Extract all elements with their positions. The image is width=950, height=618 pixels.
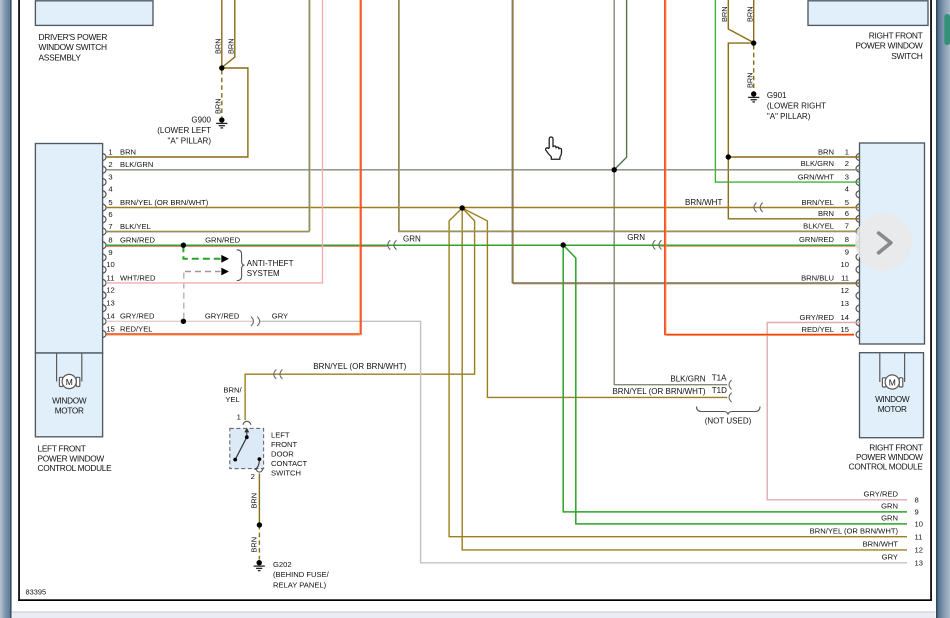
- svg-text:"A" PILLAR): "A" PILLAR): [168, 137, 212, 146]
- wire BRN to right module pin 1: [728, 156, 860, 158]
- page frame left border: [18, 0, 20, 601]
- svg-text:DRIVER'S POWER: DRIVER'S POWER: [39, 32, 108, 42]
- svg-text:4: 4: [108, 185, 112, 194]
- brace (NOT USED): [697, 407, 761, 415]
- wire dashed WHT/RED to anti-theft: [185, 271, 221, 273]
- svg-text:10: 10: [106, 260, 114, 269]
- wire BRN second vertical to G901 junction: [753, 0, 755, 43]
- left front door contact switch box: [230, 428, 264, 468]
- wire BLK/YEL right pin7 from top: [399, 0, 860, 232]
- svg-text:6: 6: [845, 209, 849, 218]
- svg-text:14: 14: [106, 312, 114, 321]
- svg-text:MOTOR: MOTOR: [878, 405, 907, 414]
- arrowhead anti-theft 1: [221, 255, 229, 263]
- wire dashed GRY to pin14 junction: [183, 273, 185, 322]
- svg-text:15: 15: [841, 325, 849, 334]
- wire WHT/RED left pin11 up: [106, 0, 322, 283]
- svg-text:WHT/RED: WHT/RED: [120, 273, 156, 282]
- svg-text:RIGHT FRONT: RIGHT FRONT: [869, 443, 922, 453]
- svg-text:BRN: BRN: [213, 98, 222, 114]
- svg-text:CONTROL MODULE: CONTROL MODULE: [38, 463, 113, 473]
- svg-text:13: 13: [106, 299, 114, 308]
- svg-text:(LOWER RIGHT: (LOWER RIGHT: [767, 102, 826, 111]
- wire BLK/GRN branch up: [613, 0, 615, 170]
- svg-text:1: 1: [845, 147, 849, 156]
- left motor symbol M: [57, 354, 82, 389]
- svg-text:MOTOR: MOTOR: [55, 406, 84, 415]
- scrollbar thumb (teal): [944, 14, 950, 45]
- wire BRN/YEL branch to door contact switch: [245, 208, 475, 420]
- page frame bottom border: [18, 599, 932, 601]
- svg-text:GRN: GRN: [627, 233, 645, 242]
- wire GRN branch to exit 10: [563, 245, 907, 524]
- svg-text:12: 12: [106, 286, 114, 295]
- right connector pins 1-15: [856, 153, 859, 160]
- svg-text:14: 14: [841, 313, 849, 322]
- junction BRN right: [751, 40, 756, 45]
- wire BRN/WHT branch to exit 12: [462, 208, 907, 550]
- wire BLK/GRN pin2 across: [106, 169, 860, 171]
- wire RED/YEL left pin15 up: [106, 0, 361, 334]
- svg-text:9: 9: [108, 248, 112, 257]
- svg-text:BLK/YEL: BLK/YEL: [120, 222, 151, 231]
- switch plunger arrow: [246, 431, 248, 438]
- right front power window switch box: [808, 1, 928, 26]
- ground G202: [254, 560, 265, 571]
- svg-text:POWER WINDOW: POWER WINDOW: [856, 452, 923, 462]
- svg-text:RIGHT FRONT: RIGHT FRONT: [869, 31, 923, 41]
- wire BRN branch down to right pin 6: [728, 43, 860, 219]
- svg-text:GRN/RED: GRN/RED: [205, 236, 241, 245]
- svg-text:BRN/WHT: BRN/WHT: [863, 540, 899, 549]
- ground G900: [216, 117, 227, 128]
- right window motor box: [860, 353, 924, 438]
- svg-text:83395: 83395: [26, 587, 47, 596]
- junction BRN left: [219, 65, 224, 70]
- svg-text:15: 15: [106, 324, 114, 333]
- svg-text:GRN/WHT: GRN/WHT: [798, 173, 835, 182]
- junction BRN/YEL bus fan-out: [460, 205, 465, 210]
- svg-text:GRN: GRN: [881, 502, 898, 511]
- svg-text:9: 9: [915, 508, 919, 517]
- svg-text:YEL: YEL: [225, 395, 239, 404]
- wire BRN to left module pin 1: [106, 68, 248, 157]
- wire BRN/YEL branch to exit 11: [449, 208, 907, 537]
- wire BRN dashed to ground G900: [221, 70, 223, 117]
- wire dashed GRN to anti-theft: [183, 245, 220, 259]
- next page chevron button: [855, 214, 912, 271]
- svg-text:RELAY PANEL): RELAY PANEL): [273, 581, 327, 590]
- svg-text:2: 2: [845, 159, 849, 168]
- svg-text:DOOR: DOOR: [271, 450, 294, 459]
- svg-text:13: 13: [915, 559, 923, 568]
- svg-text:SWITCH: SWITCH: [271, 468, 301, 477]
- svg-text:POWER WINDOW: POWER WINDOW: [38, 453, 105, 463]
- svg-text:GRN/RED: GRN/RED: [120, 236, 156, 245]
- switch pin2 hook: [255, 461, 260, 470]
- svg-text:1: 1: [108, 147, 112, 156]
- svg-text:GRY/RED: GRY/RED: [800, 313, 835, 322]
- svg-text:M: M: [889, 377, 896, 387]
- svg-text:RED/YEL: RED/YEL: [120, 324, 153, 333]
- svg-text:12: 12: [915, 546, 923, 555]
- junction GRN: [561, 242, 566, 247]
- svg-text:T1A: T1A: [712, 373, 727, 382]
- svg-text:BRN/YEL (OR BRN/WHT): BRN/YEL (OR BRN/WHT): [120, 198, 209, 207]
- bottom page gap: [12, 612, 936, 613]
- wire GRY to exit 13: [260, 321, 908, 563]
- wire GRY/RED right pin14 to exit 8: [767, 323, 907, 500]
- svg-text:3: 3: [108, 172, 112, 181]
- switch pin 2 bump: [256, 469, 263, 472]
- svg-text:5: 5: [108, 198, 112, 207]
- wire GRN branch to exit 9: [563, 245, 907, 512]
- junction GRN anti-theft tap: [181, 243, 186, 248]
- svg-text:4: 4: [845, 185, 849, 194]
- svg-text:GRN: GRN: [403, 235, 421, 244]
- right UI strip: [936, 0, 950, 618]
- junction GRY/RED anti-theft tap: [181, 319, 186, 324]
- svg-text:SYSTEM: SYSTEM: [247, 269, 280, 278]
- svg-text:BRN: BRN: [120, 147, 136, 156]
- wire BRN vertical with bend into G901 junction: [728, 0, 752, 42]
- svg-text:WINDOW SWITCH: WINDOW SWITCH: [39, 42, 107, 52]
- svg-text:BRN: BRN: [250, 537, 259, 553]
- svg-text:BRN/YEL (OR BRN/WHT): BRN/YEL (OR BRN/WHT): [612, 387, 705, 396]
- svg-text:BRN: BRN: [213, 38, 222, 54]
- wire BRN second vertical with bend into junction: [222, 0, 235, 68]
- wire BRN/YEL branch to T1D: [462, 208, 727, 397]
- svg-text:13: 13: [841, 299, 849, 308]
- svg-text:RED/YEL: RED/YEL: [802, 325, 835, 334]
- svg-text:(NOT USED): (NOT USED): [705, 416, 752, 425]
- svg-text:G202: G202: [273, 560, 292, 569]
- svg-text:6: 6: [108, 210, 112, 219]
- svg-text:(BEHIND FUSE/: (BEHIND FUSE/: [273, 570, 330, 579]
- svg-text:10: 10: [915, 520, 923, 529]
- svg-text:BRN/YEL: BRN/YEL: [802, 198, 835, 207]
- svg-text:ASSEMBLY: ASSEMBLY: [39, 53, 82, 63]
- junction BRN right pin1 tap: [726, 154, 731, 159]
- wire RED/YEL right pin15 from top: [665, 0, 854, 335]
- svg-text:11: 11: [107, 273, 115, 282]
- left connector pins 1-15: [103, 153, 106, 160]
- svg-text:GRY/RED: GRY/RED: [864, 489, 899, 498]
- svg-text:BRN/WHT: BRN/WHT: [685, 198, 722, 207]
- svg-text:BRN: BRN: [250, 493, 259, 509]
- svg-text:"A" PILLAR): "A" PILLAR): [767, 112, 811, 121]
- svg-text:BRN: BRN: [226, 38, 235, 54]
- svg-text:BRN: BRN: [720, 6, 729, 22]
- junction BRN G202: [257, 522, 262, 527]
- svg-text:M: M: [66, 377, 73, 387]
- svg-text:7: 7: [845, 222, 849, 231]
- svg-text:G901: G901: [767, 91, 787, 100]
- svg-text:BRN/: BRN/: [223, 385, 242, 394]
- svg-text:GRY: GRY: [272, 312, 288, 321]
- svg-text:LEFT: LEFT: [271, 431, 290, 440]
- wire BRN/BLU right pin11 from top: [512, 0, 860, 283]
- wire BLK/GRN branch down to T1A: [614, 170, 727, 385]
- svg-text:FRONT: FRONT: [271, 440, 298, 449]
- svg-text:9: 9: [845, 247, 849, 256]
- svg-text:11: 11: [841, 274, 849, 283]
- brace anti-theft system: [237, 250, 245, 281]
- wire GRN/WHT right pin3 from top: [715, 0, 859, 182]
- svg-text:ANTI-THEFT: ANTI-THEFT: [247, 259, 294, 268]
- left front power window control module connector box: [35, 144, 102, 354]
- wire BLK/GRN diagonal branch up: [614, 0, 626, 170]
- svg-text:7: 7: [108, 222, 112, 231]
- svg-text:8: 8: [915, 496, 919, 505]
- wire BRN/YEL pin5 across: [106, 207, 860, 209]
- switch pin2 contact: [258, 457, 262, 461]
- svg-text:BRN/YEL (OR BRN/WHT): BRN/YEL (OR BRN/WHT): [313, 362, 406, 371]
- wire BRN switch pin2 down: [258, 474, 260, 526]
- page frame right border: [930, 0, 932, 601]
- svg-text:GRY/RED: GRY/RED: [205, 312, 240, 321]
- wire BRN dashed to ground G901: [753, 45, 755, 92]
- driver's power window switch assembly box: [35, 1, 153, 26]
- right motor symbol M: [880, 353, 905, 389]
- svg-text:BRN/YEL (OR BRN/WHT): BRN/YEL (OR BRN/WHT): [810, 526, 899, 535]
- svg-text:12: 12: [841, 286, 849, 295]
- switch pin 1 bump: [243, 421, 251, 424]
- svg-text:BLK/GRN: BLK/GRN: [670, 374, 705, 383]
- svg-text:POWER WINDOW: POWER WINDOW: [855, 41, 923, 51]
- svg-text:2: 2: [251, 472, 255, 481]
- svg-text:(LOWER LEFT: (LOWER LEFT: [157, 126, 211, 135]
- svg-text:BRN: BRN: [745, 72, 754, 88]
- svg-text:G900: G900: [191, 115, 211, 124]
- svg-text:SWITCH: SWITCH: [891, 51, 922, 61]
- svg-text:CONTACT: CONTACT: [271, 459, 307, 468]
- svg-text:BLK/GRN: BLK/GRN: [120, 160, 153, 169]
- svg-text:BRN: BRN: [745, 6, 754, 22]
- svg-text:BLK/GRN: BLK/GRN: [801, 159, 834, 168]
- wire BLK/YEL left pin7 up: [106, 0, 309, 232]
- junction BLK/GRN: [612, 167, 617, 172]
- wire GRY/RED left pin14: [106, 320, 252, 322]
- svg-text:BRN: BRN: [818, 209, 834, 218]
- svg-text:2: 2: [108, 160, 112, 169]
- svg-text:3: 3: [845, 173, 849, 182]
- svg-text:T1D: T1D: [712, 386, 727, 395]
- right front power window control module connector box: [860, 143, 925, 344]
- wire BRN dashed to ground G202: [258, 525, 260, 560]
- mouse cursor (hand): [546, 137, 562, 159]
- svg-text:GRY: GRY: [882, 552, 898, 561]
- svg-text:CONTROL MODULE: CONTROL MODULE: [849, 462, 924, 472]
- left window motor box: [35, 353, 102, 437]
- switch contact blade: [235, 437, 247, 459]
- svg-text:BRN/BLU: BRN/BLU: [801, 274, 834, 283]
- svg-text:BRN: BRN: [818, 147, 834, 156]
- svg-text:LEFT FRONT: LEFT FRONT: [38, 444, 86, 454]
- svg-text:BLK/YEL: BLK/YEL: [803, 222, 834, 231]
- ground G901: [748, 91, 759, 102]
- svg-text:11: 11: [915, 533, 923, 542]
- wire GRN/RED-GRN pin8 across: [106, 244, 860, 246]
- wire GRN/RED red stripe left segment: [106, 245, 387, 247]
- arrowhead anti-theft 2: [221, 268, 229, 276]
- svg-text:10: 10: [841, 260, 849, 269]
- svg-text:8: 8: [108, 236, 112, 245]
- left UI strip: [0, 0, 10, 618]
- svg-text:WINDOW: WINDOW: [52, 396, 87, 405]
- wire GRN/RED red stripe right segment: [660, 245, 860, 247]
- svg-text:GRY/RED: GRY/RED: [120, 312, 155, 321]
- svg-text:GRN/RED: GRN/RED: [799, 235, 835, 244]
- svg-text:8: 8: [845, 235, 849, 244]
- svg-text:1: 1: [237, 413, 241, 422]
- wire BRN vertical from top to G900 junction: [221, 0, 223, 68]
- svg-text:5: 5: [845, 198, 849, 207]
- svg-text:WINDOW: WINDOW: [875, 395, 910, 404]
- svg-text:GRN: GRN: [881, 514, 898, 523]
